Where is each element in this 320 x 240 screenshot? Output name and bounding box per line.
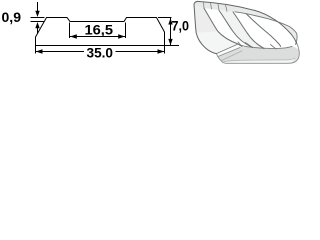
svg-text:0,9: 0,9 — [2, 9, 22, 25]
svg-text:16,5: 16,5 — [85, 22, 114, 38]
svg-text:7,0: 7,0 — [172, 17, 190, 33]
svg-text:35.0: 35.0 — [87, 44, 114, 60]
